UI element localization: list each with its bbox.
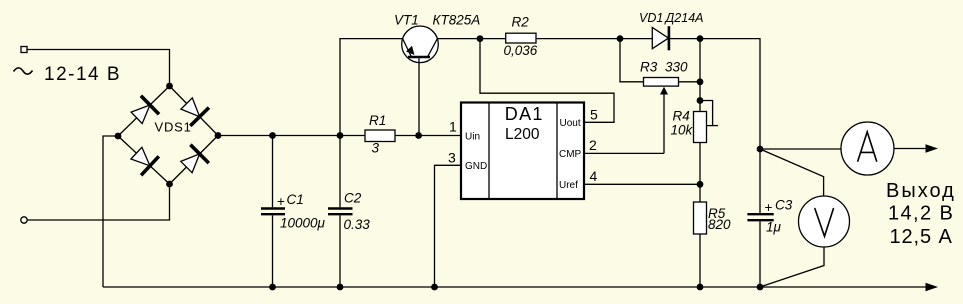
diode VDS1 bottom-right [181,145,209,173]
node C2 top [337,132,344,139]
IC DA1 box [461,103,584,200]
resistor R1 [365,130,395,142]
terminal X2 [21,217,27,223]
capacitor C1 [261,136,285,288]
diode VDS1 top-right [181,98,209,126]
wire bridge arm bottom-left [118,136,170,184]
svg-text:10k: 10k [671,123,694,138]
svg-text:DA1: DA1 [505,104,544,124]
wire AC input top [27,50,170,87]
wire bottom rail [103,286,927,288]
svg-text:0,036: 0,036 [504,43,538,58]
wire bridge arm bottom-right [170,136,219,185]
AC source symbol [14,68,33,74]
node Uref R5 [697,181,704,188]
svg-text:+: + [277,194,285,209]
svg-text:+: + [765,200,773,215]
wire AC input bottom [27,184,170,220]
wire positive rail [218,135,461,137]
terminal X1 [21,47,27,53]
svg-text:R1: R1 [369,113,386,128]
wire column x700 lower [699,234,701,287]
svg-text:1μ: 1μ [766,220,782,235]
resistor R4 [694,112,707,143]
svg-text:14,2 В: 14,2 В [888,203,954,225]
svg-text:C1: C1 [287,192,304,207]
wire voltmeter bottom [760,247,824,287]
diode VDS1 top-left [131,96,159,124]
node VT1 base [415,132,422,139]
wire column x700 upper [699,39,701,112]
svg-text:VDS1: VDS1 [155,120,192,135]
svg-text:CMP: CMP [559,149,582,160]
svg-text:R2: R2 [512,15,530,30]
svg-text:Uin: Uin [465,132,480,143]
meter letter V [815,209,834,237]
voltmeter PV1 [799,196,850,247]
node VD1 cathode [697,35,704,42]
svg-text:R3: R3 [640,60,658,75]
svg-text:C3: C3 [775,198,793,213]
svg-text:C2: C2 [344,191,362,206]
svg-text:3: 3 [448,150,456,166]
wire to ammeter [760,148,841,150]
svg-text:12-14 В: 12-14 В [44,64,121,85]
svg-text:330: 330 [665,60,688,75]
wire GND pin3 [435,165,462,287]
svg-text:Выход: Выход [886,180,956,202]
node bridge right [215,132,222,139]
wire output plus [894,148,926,150]
node R3 top-left [617,35,624,42]
resistor R5 [694,202,707,234]
svg-text:Д214А: Д214А [664,11,704,25]
svg-text:1: 1 [449,119,457,135]
node R3 right [697,78,704,85]
node C3 bottom [757,284,764,291]
svg-text:L200: L200 [505,126,540,143]
wire Uref pin4 [584,183,700,185]
node VT1 collector [477,35,484,42]
wire bridge negative to bottom rail [103,136,118,287]
wire VT1 emitter feed [340,39,402,136]
wire R3 right leg [679,81,701,83]
svg-text:5: 5 [590,107,598,123]
diode VDS1 bottom-left [131,147,159,175]
wire voltmeter top [760,149,824,196]
node bridge left [115,133,122,140]
resistor R2 [506,33,536,43]
wire column x700 mid [699,143,701,203]
svg-text:12,5 А: 12,5 А [890,226,953,248]
wire Uout pin5 link [480,39,614,123]
svg-text:VT1: VT1 [394,13,419,28]
svg-text:3: 3 [372,141,380,156]
svg-text:R4: R4 [673,109,690,124]
arrow output minus [926,283,939,291]
svg-text:4: 4 [590,168,598,184]
node bridge bottom [166,181,173,188]
wire R3 left leg [620,39,644,82]
svg-text:820: 820 [708,217,731,232]
node bridge top [166,83,173,90]
node R5 bottom [697,284,704,291]
wire CMP pin2 [584,152,664,154]
wire top rail collector to output corner [437,39,760,149]
wire bridge arm top-left [118,86,170,136]
node output plus [757,146,764,153]
arrow output plus [926,144,939,152]
meter letter A [858,132,877,161]
resistor R3 trimmer [644,78,679,154]
ammeter PA1 [841,122,894,175]
svg-text:2: 2 [589,137,597,153]
svg-text:Uref: Uref [559,180,578,191]
transistor VT1 [402,26,439,136]
node R4 top [697,97,704,104]
wire bridge arm top-right [170,86,219,136]
svg-text:0.33: 0.33 [344,217,371,232]
wire R4 wiper tap [707,125,719,127]
diode VD1 [652,26,669,50]
svg-text:10000μ: 10000μ [280,216,326,231]
svg-text:КТ825А: КТ825А [433,13,481,28]
svg-text:VD1: VD1 [639,11,663,25]
node C1 top [269,132,276,139]
svg-text:Uout: Uout [560,118,581,129]
wire R4 wiper jumper [700,101,713,126]
node GND bottom [431,284,438,291]
svg-text:GND: GND [465,161,487,172]
node C1 bottom [269,284,276,291]
capacitor C2 [328,136,353,288]
capacitor C3 [747,149,773,287]
node C2 bottom [337,284,344,291]
